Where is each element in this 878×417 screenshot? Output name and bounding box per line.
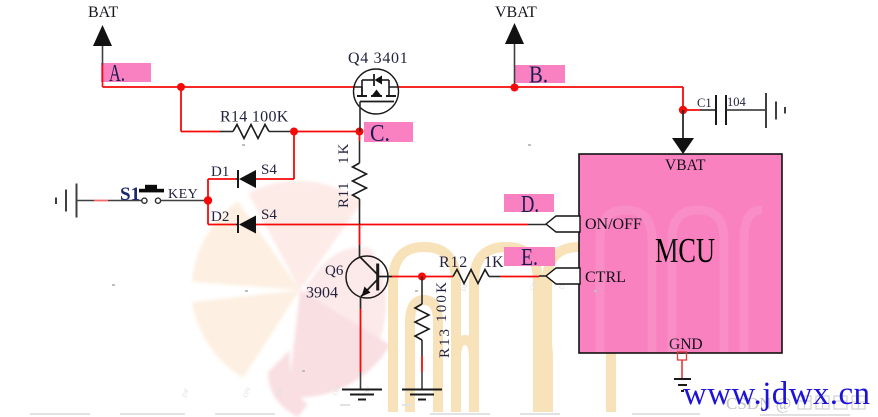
junction node A-R14: [177, 83, 185, 91]
svg-text:S4: S4: [261, 162, 277, 178]
junction node KEY: [204, 196, 212, 204]
capacitor C1: [683, 95, 765, 125]
pin ON/OFF: [546, 216, 642, 233]
svg-text:CTRL: CTRL: [585, 269, 626, 286]
pin CTRL: [546, 268, 626, 286]
wire B down to C1: [682, 87, 684, 110]
wire R14 left: [181, 131, 220, 133]
ground Q6 emitter: [342, 390, 382, 400]
svg-text:C.: C.: [370, 121, 390, 147]
wire Q6 base to R12 node: [392, 276, 422, 278]
wire VBAT into MCU arrow: [672, 110, 694, 154]
label B.: [515, 63, 565, 89]
svg-text:1K: 1K: [336, 142, 352, 164]
wire R14 right: [269, 131, 294, 133]
junction node C1: [679, 106, 687, 114]
wire net A horizontal: [103, 86, 355, 88]
bottom faint dashes: [30, 405, 850, 415]
resistor R14: [220, 109, 289, 139]
MCU block: [579, 154, 782, 353]
wire D1 vertical drop: [293, 132, 295, 180]
mosfet Q4: [348, 50, 408, 114]
wire mosfet drain to B: [389, 86, 398, 88]
wire node to C: [294, 131, 360, 133]
wire D2 to ON/OFF: [208, 224, 546, 226]
wire Q4 gate down to node C: [359, 102, 361, 132]
label C.: [364, 121, 413, 147]
label E.: [504, 245, 555, 271]
ground C1 right: [766, 93, 785, 128]
svg-text:1K: 1K: [484, 254, 504, 271]
svg-text:R13: R13: [437, 327, 453, 358]
junction node base: [418, 273, 426, 281]
CSDN watermark text: [726, 394, 865, 413]
svg-text:104: 104: [727, 95, 747, 109]
wire S1 to junction: [161, 200, 205, 202]
wire D1 row right segment: [256, 178, 294, 180]
wire net B horizontal: [398, 86, 683, 88]
svg-text:www.jdwx.cn: www.jdwx.cn: [683, 376, 870, 412]
junction node B: [511, 84, 519, 92]
power flag BAT: [88, 4, 118, 87]
wire R11 to Q6 collector: [359, 225, 361, 246]
svg-text:Q4 3401: Q4 3401: [348, 50, 408, 67]
svg-text:B.: B.: [529, 63, 548, 89]
wire A to R14 vertical: [180, 87, 182, 132]
wire emitter down: [360, 297, 362, 390]
resistor R13: [415, 277, 453, 390]
GND pin of MCU: [678, 352, 687, 379]
resistor R12: [422, 254, 546, 284]
svg-text:R14 100K: R14 100K: [220, 109, 289, 126]
ground left: [56, 184, 77, 218]
transistor Q6: [306, 256, 392, 302]
svg-text:S1: S1: [120, 184, 140, 205]
junction node C: [356, 128, 364, 136]
svg-text:Q6: Q6: [325, 263, 344, 279]
svg-text:MCU: MCU: [655, 231, 715, 270]
label A.: [101, 61, 151, 87]
watermark arches over MCU: [600, 210, 762, 352]
wire D1 left to key junction: [208, 178, 236, 180]
label D.: [504, 192, 554, 218]
ground GND pin: [674, 379, 691, 391]
svg-text:C1: C1: [697, 96, 712, 110]
svg-text:ON: ON: [241, 386, 252, 398]
wire mosfet source stub: [354, 86, 362, 88]
power flag VBAT top: [495, 4, 537, 87]
diode D1: [211, 162, 277, 188]
svg-text:R12: R12: [439, 254, 468, 271]
svg-text:A.: A.: [109, 61, 125, 87]
svg-text:3904: 3904: [306, 285, 338, 302]
junction node R14-D1: [290, 128, 298, 136]
svg-text:S4: S4: [261, 207, 277, 223]
svg-text:ON/OFF: ON/OFF: [585, 216, 642, 233]
wire ground to S1: [77, 200, 142, 202]
svg-text:VBAT: VBAT: [495, 4, 537, 21]
diode D2: [211, 207, 277, 234]
svg-text:R11: R11: [336, 182, 352, 208]
svg-text:D1: D1: [211, 164, 229, 180]
svg-text:VBAT: VBAT: [665, 157, 706, 174]
svg-text:100K: 100K: [434, 280, 450, 322]
watermark orange arches: [393, 247, 611, 412]
svg-text:D2: D2: [211, 209, 229, 225]
watermark tiny grey tags: [180, 279, 632, 398]
switch S1 KEY: [120, 184, 198, 205]
resistor R11: [336, 132, 367, 225]
faint specks: [112, 144, 597, 372]
svg-text:E.: E.: [521, 245, 538, 271]
svg-text:BAT: BAT: [88, 4, 118, 21]
ground R13: [402, 390, 442, 400]
svg-text:D.: D.: [521, 192, 539, 218]
svg-text:DP: DP: [180, 387, 191, 398]
